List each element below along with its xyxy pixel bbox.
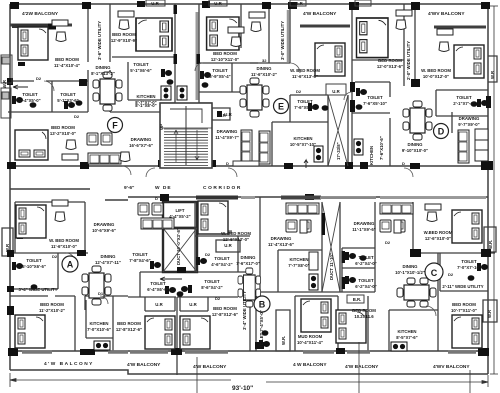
svg-text:D.R: D.R: [295, 1, 303, 6]
svg-text:TOILET: TOILET: [132, 252, 148, 257]
svg-text:W.BED ROOM: W.BED ROOM: [424, 230, 453, 235]
svg-text:CORRIDOR: CORRIDOR: [203, 185, 242, 191]
svg-text:BED ROOM: BED ROOM: [213, 306, 237, 311]
svg-text:7'-8"X4'-6": 7'-8"X4'-6": [129, 258, 150, 263]
svg-text:10'-0"X12'-0": 10'-0"X12'-0": [423, 74, 449, 79]
svg-text:11'-6"X10'-0": 11'-6"X10'-0": [51, 244, 77, 249]
svg-text:8'-1"X8'-0": 8'-1"X8'-0": [135, 103, 156, 108]
svg-text:32: 32: [262, 58, 267, 63]
svg-text:KITCHEN: KITCHEN: [369, 146, 374, 165]
svg-text:7'-0"X10'-6": 7'-0"X10'-6": [87, 327, 111, 332]
svg-text:4'WV BALCONY: 4'WV BALCONY: [428, 11, 465, 17]
svg-text:TOILET: TOILET: [461, 259, 477, 264]
svg-text:U.R: U.R: [214, 1, 222, 6]
svg-text:TOILET: TOILET: [22, 92, 38, 97]
svg-text:12'-6"X12'-0": 12'-6"X12'-0": [223, 237, 249, 242]
svg-text:D: D: [438, 127, 445, 137]
svg-text:W. BED ROOM: W. BED ROOM: [421, 68, 451, 73]
svg-text:D2: D2: [296, 89, 302, 94]
svg-text:10.2X11.6: 10.2X11.6: [354, 314, 374, 319]
svg-text:A: A: [67, 260, 74, 270]
svg-text:F: F: [112, 121, 118, 131]
svg-text:7'-6"X5'-10": 7'-6"X5'-10": [363, 101, 387, 106]
svg-text:TOILET: TOILET: [204, 279, 220, 284]
svg-text:12'-8"X12'-6": 12'-8"X12'-6": [116, 327, 142, 332]
svg-text:KITCHEN: KITCHEN: [89, 321, 108, 326]
svg-text:TOILET: TOILET: [150, 281, 166, 286]
svg-text:W.R: W.R: [487, 309, 492, 318]
svg-text:DUCT 10'-0"X3'-8": DUCT 10'-0"X3'-8": [176, 228, 181, 265]
svg-text:DRAWING: DRAWING: [354, 221, 375, 226]
svg-text:W.R: W.R: [5, 243, 10, 252]
svg-text:TOILET: TOILET: [297, 99, 313, 104]
svg-text:5'-10"X6'-6": 5'-10"X6'-6": [22, 264, 46, 269]
svg-text:DINING: DINING: [240, 255, 256, 260]
svg-text:D2: D2: [205, 252, 211, 257]
svg-text:10'-4"X11'-4": 10'-4"X11'-4": [297, 340, 323, 345]
svg-text:W. BED ROOM: W. BED ROOM: [49, 238, 79, 243]
svg-text:DINING: DINING: [95, 65, 111, 70]
svg-text:12'-6"X10'-0": 12'-6"X10'-0": [425, 236, 451, 241]
svg-text:D2: D2: [36, 76, 42, 81]
svg-text:4 W BALCONY: 4 W BALCONY: [293, 362, 327, 368]
svg-text:D1: D1: [98, 291, 104, 296]
svg-text:U.R: U.R: [155, 302, 163, 307]
svg-text:TOILET: TOILET: [214, 256, 230, 261]
svg-text:11'-6"X13'-6": 11'-6"X13'-6": [292, 74, 318, 79]
svg-text:C: C: [431, 268, 438, 278]
svg-text:6'-2"X4'-0": 6'-2"X4'-0": [355, 284, 376, 289]
svg-text:KITCHEN: KITCHEN: [289, 257, 308, 262]
svg-text:4'W BALCONY: 4'W BALCONY: [127, 362, 161, 368]
svg-text:12'-8"X12'-6": 12'-8"X12'-6": [212, 312, 238, 317]
svg-text:12'-9"X10'-9": 12'-9"X10'-9": [111, 38, 137, 43]
svg-text:TOILET: TOILET: [60, 92, 76, 97]
svg-text:11'-4"X13'-6": 11'-4"X13'-6": [268, 242, 294, 247]
svg-text:D: D: [155, 196, 158, 201]
svg-text:3'-0" WIDE UTILITY: 3'-0" WIDE UTILITY: [280, 21, 285, 60]
svg-text:6'-4"X6'-0": 6'-4"X6'-0": [147, 287, 168, 292]
svg-text:9'-10"X10'-0": 9'-10"X10'-0": [402, 148, 428, 153]
svg-text:DINING: DINING: [100, 254, 116, 259]
svg-text:W.R.: W.R.: [488, 240, 493, 249]
svg-text:DUCT 11'-10": DUCT 11'-10": [329, 253, 334, 280]
svg-text:16'-6"X7'-6": 16'-6"X7'-6": [129, 143, 153, 148]
svg-text:12'-4"X7'-11": 12'-4"X7'-11": [95, 260, 121, 265]
svg-text:BED ROOM: BED ROOM: [40, 302, 64, 307]
svg-text:D2: D2: [385, 240, 391, 245]
svg-text:U.R: U.R: [224, 112, 232, 117]
svg-text:4'W BALCONY: 4'W BALCONY: [345, 364, 379, 370]
svg-text:U.R: U.R: [189, 302, 197, 307]
svg-text:BED ROOM: BED ROOM: [55, 57, 79, 62]
svg-text:9'-7"X9'-0": 9'-7"X9'-0": [458, 122, 479, 127]
svg-text:TOILET: TOILET: [358, 278, 374, 283]
svg-text:3'-4" WIDE UTILITY: 3'-4" WIDE UTILITY: [18, 287, 57, 292]
svg-text:BED ROOM: BED ROOM: [213, 51, 237, 56]
svg-text:4'-6"X4'-2": 4'-6"X4'-2": [211, 262, 232, 267]
svg-text:W. BED ROOM: W. BED ROOM: [221, 231, 251, 236]
svg-text:LIFT: LIFT: [175, 208, 184, 213]
svg-text:4'W BALCONY: 4'W BALCONY: [44, 361, 94, 367]
svg-text:W.R.: W.R.: [281, 336, 286, 345]
svg-text:10'-5"X7'-10": 10'-5"X7'-10": [290, 142, 316, 147]
svg-text:6'-2"X4'-0": 6'-2"X4'-0": [355, 261, 376, 266]
svg-text:3'-4" WIDE UTILITY: 3'-4" WIDE UTILITY: [242, 291, 247, 330]
svg-text:W DE: W DE: [155, 185, 172, 191]
svg-text:TOILET: TOILET: [133, 62, 149, 67]
svg-text:7'-7"X8'-0": 7'-7"X8'-0": [288, 263, 309, 268]
svg-text:BED ROOM: BED ROOM: [112, 32, 136, 37]
svg-text:2'-11" WIDE UTILITY: 2'-11" WIDE UTILITY: [442, 284, 483, 289]
svg-text:4'-4"X5'-2": 4'-4"X5'-2": [169, 214, 190, 219]
svg-text:D: D: [226, 161, 229, 166]
svg-text:11'-2"X10'-2": 11'-2"X10'-2": [39, 308, 65, 313]
svg-text:5'-1"X3'-6": 5'-1"X3'-6": [57, 98, 78, 103]
svg-text:DRAWING: DRAWING: [271, 236, 292, 241]
svg-text:E: E: [278, 102, 284, 112]
svg-text:KITCHEN: KITCHEN: [136, 94, 155, 99]
svg-text:BED ROOM: BED ROOM: [352, 308, 376, 313]
svg-text:TOILET: TOILET: [456, 95, 472, 100]
svg-text:17'-33/8": 17'-33/8": [336, 142, 341, 160]
svg-text:4'WV BALCONY: 4'WV BALCONY: [433, 364, 470, 370]
svg-text:U.R: U.R: [332, 89, 340, 94]
svg-text:D: D: [402, 161, 405, 166]
svg-text:11'-6"X10'-2": 11'-6"X10'-2": [251, 72, 277, 77]
svg-text:KITCHEN: KITCHEN: [293, 136, 312, 141]
svg-text:TOILET: TOILET: [26, 258, 42, 263]
svg-text:DRAWING: DRAWING: [94, 222, 115, 227]
svg-text:D2: D2: [52, 254, 58, 259]
svg-text:D2: D2: [215, 296, 221, 301]
svg-text:5'-4"X5'-0": 5'-4"X5'-0": [19, 98, 40, 103]
svg-text:8'-5"X7'-6": 8'-5"X7'-6": [396, 335, 417, 340]
svg-text:TOILET 7'-4"X5'-0": TOILET 7'-4"X5'-0": [259, 310, 264, 348]
svg-text:BED ROOM: BED ROOM: [51, 125, 75, 130]
svg-text:4'W BALCONY: 4'W BALCONY: [193, 364, 227, 370]
svg-text:9'-6": 9'-6": [124, 185, 134, 191]
svg-text:DINING: DINING: [407, 142, 423, 147]
svg-text:BED ROOM: BED ROOM: [117, 321, 141, 326]
svg-text:3'-6" WIDE UTILITY: 3'-6" WIDE UTILITY: [97, 21, 102, 60]
svg-text:7'-6"X5'-0": 7'-6"X5'-0": [294, 105, 315, 110]
svg-text:TOILET: TOILET: [358, 255, 374, 260]
svg-text:11'-4"X10'-4": 11'-4"X10'-4": [54, 63, 80, 68]
svg-text:W.R: W.R: [490, 70, 495, 79]
svg-text:10'-6"X9'-6": 10'-6"X9'-6": [92, 228, 116, 233]
svg-text:11'-1"X9'-6": 11'-1"X9'-6": [352, 227, 376, 232]
svg-text:UP: UP: [159, 124, 164, 130]
svg-text:B.R.: B.R.: [353, 297, 362, 302]
svg-text:U.R: U.R: [224, 243, 232, 248]
svg-text:13'-2"X10'-0": 13'-2"X10'-0": [50, 131, 76, 136]
svg-text:4'W BALCONY: 4'W BALCONY: [303, 11, 337, 17]
svg-text:BED ROOM: BED ROOM: [452, 302, 476, 307]
svg-text:KITCHEN: KITCHEN: [397, 329, 416, 334]
svg-text:D2: D2: [448, 272, 454, 277]
svg-text:MUD ROOM: MUD ROOM: [298, 334, 323, 339]
svg-text:W. BED ROOM: W. BED ROOM: [290, 68, 320, 73]
svg-text:DINING: DINING: [256, 66, 272, 71]
svg-text:4'2W BALCONY: 4'2W BALCONY: [22, 11, 59, 17]
svg-text:8'-1"X13'-2": 8'-1"X13'-2": [91, 71, 115, 76]
svg-text:U.R: U.R: [151, 1, 159, 6]
svg-text:B: B: [259, 300, 266, 310]
svg-text:2'-1"X7'-4": 2'-1"X7'-4": [453, 101, 474, 106]
svg-text:D2: D2: [74, 114, 80, 119]
svg-text:5'-9"X5'-4": 5'-9"X5'-4": [209, 74, 230, 79]
svg-text:10'-7"X11'-0": 10'-7"X11'-0": [451, 308, 477, 313]
svg-text:DINING: DINING: [402, 264, 418, 269]
svg-text:DRAWING: DRAWING: [217, 129, 238, 134]
svg-text:7'-6"X10'-6": 7'-6"X10'-6": [379, 136, 384, 160]
svg-text:DRAWING: DRAWING: [131, 137, 152, 142]
svg-text:W.R: W.R: [2, 79, 7, 88]
svg-text:TOILET: TOILET: [367, 95, 383, 100]
svg-text:5'-1"X6'-6": 5'-1"X6'-6": [130, 68, 151, 73]
svg-text:12'-0"X13'-6": 12'-0"X13'-6": [377, 64, 403, 69]
svg-text:TOILET: TOILET: [212, 68, 228, 73]
svg-text:11'-4"X9'-7": 11'-4"X9'-7": [215, 135, 239, 140]
svg-text:7'-6"X17'-0": 7'-6"X17'-0": [236, 261, 260, 266]
svg-text:BED ROOM: BED ROOM: [378, 58, 402, 63]
svg-text:93'-10": 93'-10": [232, 385, 253, 392]
svg-text:10'-1"X10'-1/2": 10'-1"X10'-1/2": [395, 270, 425, 275]
svg-text:2'-0" WIDE UTILITY: 2'-0" WIDE UTILITY: [406, 41, 411, 80]
svg-text:DRAWING: DRAWING: [459, 116, 480, 121]
svg-text:7'-0"X7'-10": 7'-0"X7'-10": [457, 265, 481, 270]
svg-text:8'-6"X4'-2": 8'-6"X4'-2": [201, 285, 222, 290]
svg-text:12'-10"X11'-0": 12'-10"X11'-0": [211, 57, 239, 62]
